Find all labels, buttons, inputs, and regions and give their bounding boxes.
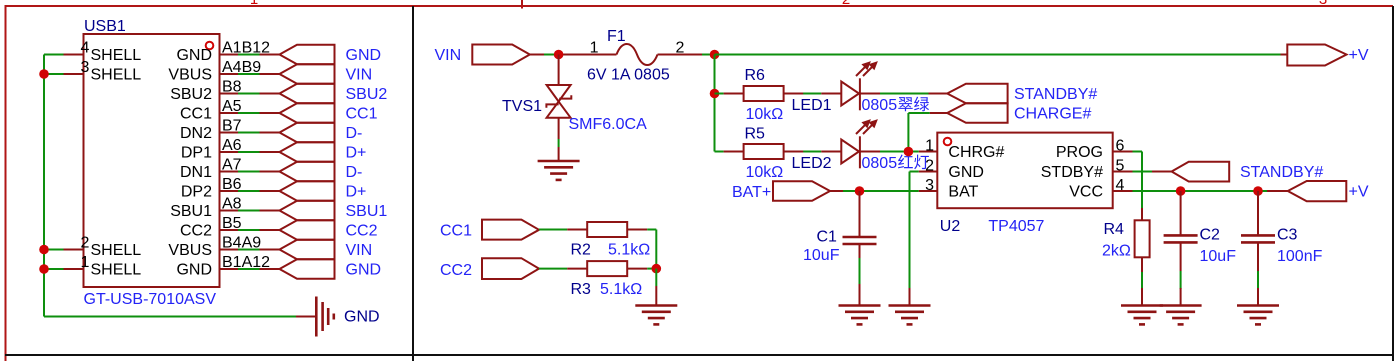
junction shell pin1: [39, 264, 49, 274]
svg-text:0805: 0805: [862, 97, 898, 114]
port D+ (row B6): [260, 181, 335, 201]
svg-text:2kΩ: 2kΩ: [1102, 243, 1131, 260]
wire R3 to junction: [647, 268, 656, 270]
svg-text:10kΩ: 10kΩ: [746, 164, 784, 181]
svg-text:5: 5: [1116, 158, 1125, 175]
svg-text:C2: C2: [1200, 227, 1221, 244]
LED1 value 0805 emerald: [862, 97, 930, 114]
U2 pin 4 VCC: [1069, 177, 1132, 200]
svg-text:10uF: 10uF: [1200, 248, 1237, 265]
USB1 pin 3 SHELL: [64, 59, 90, 76]
port D- (row A7): [260, 162, 335, 182]
wire SBU2 (row B8): [238, 93, 260, 95]
svg-text:D-: D-: [346, 164, 363, 181]
svg-text:GND: GND: [948, 164, 984, 181]
wire D- (row A7): [238, 171, 260, 173]
svg-text:1: 1: [590, 40, 599, 57]
wire GND (row B1A12): [238, 268, 260, 270]
svg-text:100nF: 100nF: [1277, 248, 1323, 265]
svg-text:6V 1A 0805: 6V 1A 0805: [587, 67, 670, 84]
wire BAT+ to U2 pin3: [830, 190, 919, 192]
svg-text:D+: D+: [346, 144, 367, 161]
wire D+ (row B6): [238, 190, 260, 192]
svg-text:GND: GND: [176, 47, 212, 64]
svg-text:GT-USB-7010ASV: GT-USB-7010ASV: [84, 291, 217, 308]
wire LED2 to U2 pin1: [880, 151, 919, 153]
USB1 pin B5 CC2: [180, 215, 242, 239]
ground symbol (C2): [1160, 306, 1202, 325]
wire D- (row B7): [238, 132, 260, 134]
svg-text:R3: R3: [571, 281, 592, 298]
ground symbol (USB shell): [316, 297, 334, 337]
port GND (row B1A12): [260, 259, 335, 279]
svg-text:3: 3: [925, 177, 934, 194]
port STANDBY# (LED1): [947, 84, 1007, 104]
USB1 pin B4A9 VBUS: [168, 235, 261, 259]
wire VIN node to R6/R5: [715, 55, 724, 152]
svg-text:10kΩ: 10kΩ: [746, 106, 784, 123]
svg-text:VIN: VIN: [346, 242, 373, 259]
svg-text:R6: R6: [745, 67, 766, 84]
port STANDBY# (right): [1172, 162, 1230, 182]
wire C3 to ground: [1257, 271, 1259, 306]
USB1 pin B1A12 GND: [176, 254, 270, 278]
svg-text:D+: D+: [346, 183, 367, 200]
svg-text:R2: R2: [571, 242, 592, 259]
capacitor C3: [1241, 191, 1275, 271]
IC U2 body: [937, 133, 1112, 209]
svg-text:SBU2: SBU2: [170, 86, 212, 103]
junction F1/+V node: [710, 50, 720, 60]
wire STDBY# to port: [1133, 171, 1172, 173]
svg-text:3: 3: [1319, 0, 1327, 8]
USB1 pin 1 SHELL: [64, 254, 90, 271]
resistor R4: [1135, 220, 1150, 257]
junction shell pin2: [39, 245, 49, 255]
USB1 pin 2 SHELL: [64, 235, 90, 252]
svg-text:2: 2: [81, 235, 90, 252]
port CC2 (row B5): [260, 220, 335, 240]
U2 pin 1 indicator dot: [944, 138, 952, 146]
svg-text:2: 2: [925, 158, 934, 175]
USB1 pin B8 SBU2: [170, 79, 241, 103]
port VIN: [472, 45, 530, 65]
port CC1 (row A5): [260, 103, 335, 123]
svg-text:CHARGE#: CHARGE#: [1014, 105, 1091, 122]
svg-text:GND: GND: [346, 261, 382, 278]
USB1 GND pin indicator dot: [206, 42, 214, 50]
svg-text:DP2: DP2: [181, 183, 212, 200]
ground symbol (C1): [839, 306, 881, 325]
svg-text:CC1: CC1: [180, 105, 212, 122]
svg-text:0805: 0805: [862, 155, 898, 172]
svg-text:BAT: BAT: [948, 183, 978, 200]
svg-text:U2: U2: [940, 218, 961, 235]
wire R2 to R3 junction: [647, 230, 656, 269]
USB1 pin A8 SBU1: [170, 196, 241, 220]
resistor R3: [567, 261, 647, 276]
junction VCC/C3: [1253, 186, 1263, 196]
svg-text:CC2: CC2: [440, 262, 472, 279]
wire F1 to node: [658, 54, 715, 56]
svg-text:CC1: CC1: [346, 105, 378, 122]
wire CC2 to R3: [539, 268, 567, 270]
wire D+ (row A6): [238, 151, 260, 153]
svg-text:GND: GND: [176, 261, 212, 278]
svg-text:SBU1: SBU1: [346, 203, 388, 220]
svg-text:SBU1: SBU1: [170, 203, 212, 220]
wire C2 to ground: [1180, 271, 1182, 306]
port CHARGE#: [947, 103, 1007, 123]
svg-text:TP4057: TP4057: [988, 218, 1044, 235]
connector USB1 body: [84, 34, 220, 287]
wire GND (row A1B12): [238, 54, 260, 56]
port GND (row A1B12): [260, 45, 335, 65]
port SBU2 (row B8): [260, 84, 335, 104]
U2 pin 3 BAT: [919, 177, 979, 200]
U2 pin 1 CHRG#: [919, 138, 1005, 161]
wire SBU1 (row A8): [238, 210, 260, 212]
junction R6 branch: [710, 89, 720, 99]
svg-text:4: 4: [81, 40, 90, 57]
wire TVS1 to ground: [558, 118, 560, 161]
svg-text:6: 6: [1116, 138, 1125, 155]
svg-text:5.1kΩ: 5.1kΩ: [608, 242, 650, 259]
junction R2/R3: [652, 264, 662, 274]
svg-text:SMF6.0CA: SMF6.0CA: [569, 116, 648, 133]
USB1 pin A4B9 VBUS: [168, 59, 261, 83]
resistor R6: [724, 86, 804, 101]
port +V (top right): [1287, 45, 1346, 66]
wire PROG to R4: [1133, 152, 1143, 221]
svg-text:LED2: LED2: [792, 155, 832, 172]
svg-text:SHELL: SHELL: [91, 66, 142, 83]
wire junction to ground (CC): [655, 269, 657, 306]
USB1 pin A7 DN1: [180, 157, 242, 181]
svg-text:VIN: VIN: [346, 66, 373, 83]
ground symbol (R4): [1121, 306, 1163, 325]
svg-text:TVS1: TVS1: [502, 98, 542, 115]
svg-text:CC2: CC2: [346, 222, 378, 239]
wire R4 to ground: [1141, 257, 1143, 305]
wire CC1 to R2: [539, 229, 567, 231]
capacitor C1: [843, 191, 877, 258]
wire shell/GND bus: [44, 55, 296, 317]
wire CC1 (row A5): [238, 112, 260, 114]
junction VIN/TVS1: [554, 50, 564, 60]
resistor R5: [724, 144, 804, 159]
svg-text:F1: F1: [607, 28, 626, 45]
svg-text:VIN: VIN: [435, 47, 462, 64]
svg-text:BAT+: BAT+: [732, 184, 771, 201]
USB1 pin 4 SHELL: [64, 40, 90, 57]
wire C1 to ground: [859, 258, 861, 306]
svg-text:10uF: 10uF: [803, 247, 840, 264]
svg-text:DN1: DN1: [180, 164, 212, 181]
svg-text:STANDBY#: STANDBY#: [1014, 86, 1097, 103]
svg-text:C1: C1: [817, 229, 838, 246]
ground symbol (U2 GND): [889, 306, 931, 325]
wire CHARGE# to CHRG# node: [908, 113, 947, 152]
port +V (VCC): [1288, 181, 1347, 201]
svg-text:USB1: USB1: [84, 18, 126, 35]
wire R5 to LED2: [803, 151, 821, 153]
port VIN (row A4B9): [260, 64, 335, 84]
svg-text:VBUS: VBUS: [168, 242, 212, 259]
svg-text:SBU2: SBU2: [346, 86, 388, 103]
svg-text:CC2: CC2: [180, 222, 212, 239]
U2 pin 5 STDBY#: [1041, 158, 1133, 181]
wire VIN to F1: [530, 54, 617, 56]
junction VCC/C2: [1176, 186, 1186, 196]
wire U2 GND to ground: [910, 172, 919, 306]
USB1 pin A5 CC1: [180, 98, 242, 122]
fuse F1: [617, 44, 658, 65]
svg-text:LED1: LED1: [792, 97, 832, 114]
port D- (row B7): [260, 123, 335, 143]
svg-text:STANDBY#: STANDBY#: [1240, 164, 1323, 181]
svg-text:STDBY#: STDBY#: [1041, 164, 1103, 181]
svg-text:1: 1: [81, 254, 90, 271]
svg-text:VBUS: VBUS: [168, 66, 212, 83]
svg-text:SHELL: SHELL: [91, 47, 142, 64]
ground symbol (C3): [1237, 306, 1279, 325]
ground symbol (CC): [635, 306, 677, 325]
port VIN (row B4A9): [260, 240, 335, 260]
junction shell pin3: [39, 69, 49, 79]
USB1 pin A1B12 GND: [176, 40, 270, 64]
wire +V rail (top): [715, 54, 1288, 56]
USB1 pin B6 DP2: [181, 176, 242, 200]
wire node to R6: [715, 93, 724, 95]
LED LED1: [821, 61, 880, 110]
LED2 value 0805 red: [862, 155, 929, 172]
wire CC2 (row B5): [238, 229, 260, 231]
svg-text:1: 1: [250, 0, 258, 8]
port CC1: [482, 220, 539, 240]
svg-text:+V: +V: [1349, 183, 1369, 200]
port SBU1 (row A8): [260, 201, 335, 221]
wire LED1 to STANDBY# port: [880, 93, 947, 95]
svg-text:R5: R5: [745, 126, 766, 143]
wire VIN (row B4A9): [238, 249, 260, 251]
svg-text:5.1kΩ: 5.1kΩ: [600, 281, 642, 298]
svg-text:CC1: CC1: [440, 222, 472, 239]
wire ground stub (USB): [296, 316, 316, 318]
svg-text:CHRG#: CHRG#: [948, 144, 1004, 161]
U2 pin 2 GND: [919, 158, 984, 181]
svg-text:1: 1: [925, 138, 934, 155]
svg-text:GND: GND: [346, 47, 382, 64]
resistor R2: [567, 222, 647, 237]
TVS diode TVS1: [546, 55, 571, 118]
port BAT+: [773, 181, 830, 200]
svg-text:C3: C3: [1277, 227, 1298, 244]
svg-text:4: 4: [1116, 177, 1125, 194]
USB1 pin A6 DP1: [181, 137, 242, 161]
LED LED2: [821, 119, 880, 168]
svg-text:3: 3: [81, 59, 90, 76]
ground symbol (TVS1): [538, 161, 580, 180]
junction CHRG# node: [904, 147, 914, 157]
svg-text:DP1: DP1: [181, 144, 212, 161]
svg-text:GND: GND: [344, 309, 380, 326]
capacitor C2: [1164, 191, 1198, 271]
svg-text:VCC: VCC: [1069, 183, 1103, 200]
svg-text:2: 2: [842, 0, 850, 8]
wire VIN (row A4B9): [238, 73, 260, 75]
svg-text:SHELL: SHELL: [91, 261, 142, 278]
wire R6 to LED1: [803, 93, 821, 95]
port D+ (row A6): [260, 142, 335, 162]
svg-text:DN2: DN2: [180, 125, 212, 142]
svg-text:PROG: PROG: [1056, 144, 1103, 161]
U2 pin 6 PROG: [1056, 138, 1133, 161]
wire VCC rail: [1133, 190, 1288, 192]
junction BAT+/C1: [855, 186, 865, 196]
svg-text:+V: +V: [1349, 47, 1369, 64]
svg-text:D-: D-: [346, 125, 363, 142]
svg-text:SHELL: SHELL: [91, 242, 142, 259]
port CC2: [482, 258, 539, 279]
svg-text:R4: R4: [1104, 221, 1125, 238]
USB1 pin B7 DN2: [180, 118, 242, 142]
